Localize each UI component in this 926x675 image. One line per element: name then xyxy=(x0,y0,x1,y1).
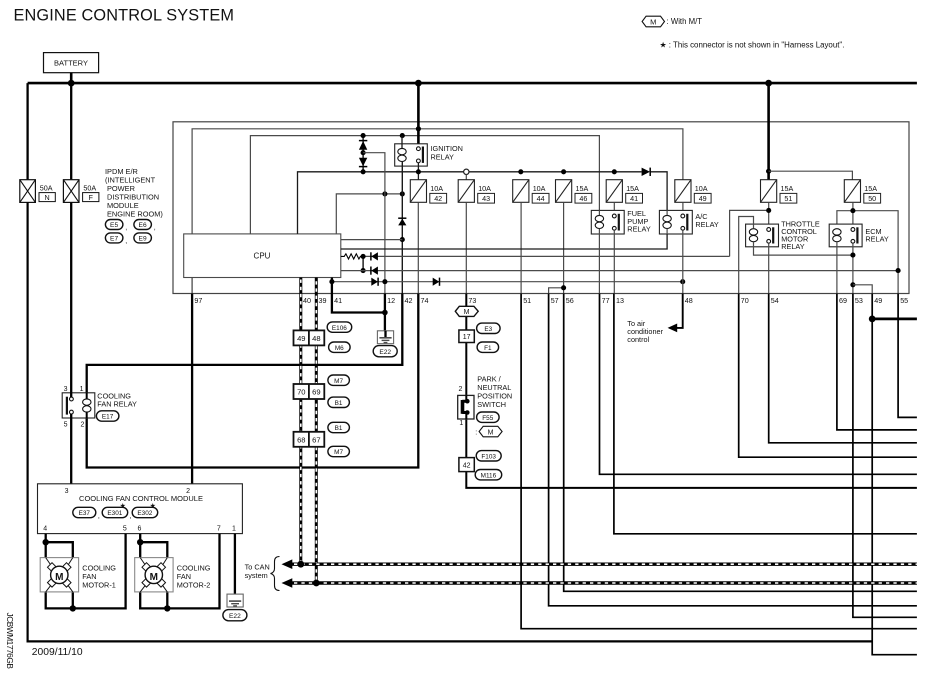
node pin12/pin41 join xyxy=(382,310,388,316)
cooling fan motor 2 xyxy=(135,558,211,592)
svg-text:M116: M116 xyxy=(481,472,497,479)
svg-text:: With M/T: : With M/T xyxy=(667,17,703,26)
svg-text:RELAY: RELAY xyxy=(781,242,805,251)
wire module pin4 to motor1 xyxy=(46,534,73,558)
wire battery drop to fuse 51 xyxy=(767,83,770,180)
node drop/rail1 xyxy=(416,126,421,131)
svg-text:FAN RELAY: FAN RELAY xyxy=(97,400,137,409)
wire pin49 below: thick branch and long drop xyxy=(872,294,917,655)
connector E3 oval xyxy=(477,323,501,333)
CAN line 40 (dashed) xyxy=(299,278,302,565)
svg-text:44: 44 xyxy=(537,194,545,203)
svg-text:N: N xyxy=(44,193,49,202)
svg-text:77: 77 xyxy=(602,296,610,305)
svg-text:M7: M7 xyxy=(334,449,343,456)
fuse 15A 51 xyxy=(761,180,797,203)
wire pin73 chain xyxy=(466,294,917,488)
tie between rowC and rowD xyxy=(362,256,364,270)
connector E301 oval (star) xyxy=(102,501,131,520)
node y194/ignition-coil xyxy=(400,191,405,196)
svg-text:F: F xyxy=(89,193,94,202)
node rail2/diode-stack xyxy=(361,133,366,138)
fuse 10A 44 xyxy=(513,180,549,203)
wire fuse43 feed xyxy=(465,175,467,180)
IPDM pin numbers xyxy=(194,296,908,305)
svg-text:M7: M7 xyxy=(334,378,343,385)
wire pin74 below to cooling fan relay pin2 xyxy=(87,294,419,468)
node rail3/fuse46 xyxy=(561,169,566,174)
diode rowD (pointing left) xyxy=(371,267,378,275)
connector block 49|48 (E106/M6) xyxy=(294,330,325,345)
CPU rowD wire to pin55 riser xyxy=(341,270,898,272)
svg-text:E106: E106 xyxy=(332,325,347,332)
CPU rowE wire pin41 to pin48 xyxy=(332,281,683,283)
svg-text:★ : This connector is not show: ★ : This connector is not shown in "Harn… xyxy=(660,41,845,50)
svg-text:system: system xyxy=(245,571,268,580)
svg-text:57: 57 xyxy=(551,296,559,305)
svg-text:M: M xyxy=(650,17,656,26)
svg-text:BATTERY: BATTERY xyxy=(54,59,88,68)
svg-text:56: 56 xyxy=(566,296,574,305)
svg-text:73: 73 xyxy=(468,296,476,305)
hexagon M on pin73 xyxy=(455,306,478,316)
wire rail3 (fuse feed rail) xyxy=(298,172,642,234)
svg-text:68: 68 xyxy=(297,435,305,444)
CAN line 39 (dashed) xyxy=(315,278,318,584)
wire ignition coil top stub xyxy=(401,136,403,148)
wire fuse44 out / pin51 column xyxy=(520,202,522,293)
connector F103 oval xyxy=(476,451,501,461)
svg-text:5: 5 xyxy=(64,421,68,428)
throttle control motor relay xyxy=(746,220,820,252)
wire pin13 below xyxy=(614,294,917,534)
wire rail2 (CPU to ignition coil / fuel pump coil) xyxy=(250,136,599,234)
node motor2 bottom xyxy=(164,605,170,611)
connector B1 oval (upper) xyxy=(328,397,350,407)
svg-text:RELAY: RELAY xyxy=(431,152,455,161)
fuse 15A 41 xyxy=(606,180,642,203)
svg-text:M: M xyxy=(464,309,470,316)
wire pin51 below xyxy=(521,294,917,629)
wire fuel pump contact out / pin13 xyxy=(613,230,615,293)
svg-text:E9: E9 xyxy=(139,236,147,243)
svg-text:69: 69 xyxy=(839,296,847,305)
node diode stack mid xyxy=(361,150,366,155)
node rowD/pin55 xyxy=(896,268,901,273)
CPU box U1 xyxy=(184,234,341,278)
node rowE/pin41 xyxy=(329,279,334,284)
svg-text:50: 50 xyxy=(868,194,876,203)
wire pin49 thick stub right xyxy=(872,317,917,320)
diode rowC (pointing left) xyxy=(371,252,378,260)
wire relay pin5 to module pin3 xyxy=(70,414,72,484)
wire branch to fuse 50 xyxy=(769,171,853,180)
node rail2/ignition-coil xyxy=(400,133,405,138)
connector E22 oval (module ground) xyxy=(223,610,247,621)
svg-text:,: , xyxy=(154,225,156,232)
svg-text:15A: 15A xyxy=(626,184,639,193)
wire fuse51 out to throttle contact, jog to rowC riser xyxy=(768,202,770,229)
svg-text:F1: F1 xyxy=(484,345,492,352)
wire fuse F feed xyxy=(70,83,72,180)
wire A/C contact out / pin48 xyxy=(682,230,684,293)
svg-text:ENGINE CONTROL SYSTEM: ENGINE CONTROL SYSTEM xyxy=(14,7,235,25)
svg-text:E302: E302 xyxy=(137,510,152,517)
node fuse51 out xyxy=(766,208,771,213)
ground symbol E22 (module) xyxy=(227,594,243,607)
svg-text:97: 97 xyxy=(194,296,202,305)
svg-text:55: 55 xyxy=(900,296,908,305)
node rowC resistor xyxy=(361,254,366,259)
ground symbol E22 (IPDM) xyxy=(377,331,393,344)
wire pin55 below xyxy=(898,294,917,418)
svg-text:E301: E301 xyxy=(107,510,122,517)
connector E22 oval (IPDM ground) xyxy=(373,346,397,357)
wire main battery bus xyxy=(28,82,917,85)
connector F1 oval xyxy=(477,342,499,352)
wire fuse42 out / pin74 column xyxy=(417,202,419,293)
hollow node rail3/fuse43 xyxy=(464,169,469,174)
CPU rowB wire to A/C coil xyxy=(341,234,667,249)
wire fuse50 out: to ECM coil, contact, and pin55 riser xyxy=(852,202,854,229)
connector E7 xyxy=(105,233,127,245)
wire pin57 below xyxy=(549,294,917,606)
wire ECM contact out to pin53, node rows xyxy=(852,243,854,293)
wire pin70 below xyxy=(739,294,917,458)
node rail3/fuse44 xyxy=(518,169,523,174)
node drop51/fuse50 branch xyxy=(766,169,771,174)
svg-text:,: , xyxy=(125,225,127,232)
wire module pin6 to motor2 xyxy=(140,534,167,558)
svg-text:M: M xyxy=(55,572,63,583)
wire pin42 below to cooling fan relay pin1 xyxy=(87,294,403,393)
wire ECM coil stub / pin69 xyxy=(836,242,838,293)
svg-text:E22: E22 xyxy=(379,349,391,356)
wire battery drop to ignition relay contact xyxy=(417,83,420,144)
node pin42/rowA xyxy=(400,237,405,242)
svg-text:SWITCH: SWITCH xyxy=(477,400,506,409)
svg-text:RELAY: RELAY xyxy=(695,220,719,229)
svg-text:67: 67 xyxy=(312,435,320,444)
svg-text:B1: B1 xyxy=(335,425,343,432)
wire ignition contact bottom to rail3 and fuse42 xyxy=(417,163,419,180)
svg-text:2009/11/10: 2009/11/10 xyxy=(32,647,83,658)
legend hexagon M (with M/T) xyxy=(642,16,702,27)
wire rail3 continuation to A/C coil xyxy=(651,172,668,211)
wire fuse N feed xyxy=(26,83,28,180)
node battery junction xyxy=(68,80,75,87)
svg-text:41: 41 xyxy=(630,194,638,203)
connector E302 oval (star) xyxy=(132,501,158,518)
diode pair stack between rail2 and rail3 xyxy=(359,136,367,172)
node y194/pin12 xyxy=(382,191,387,196)
svg-text:69: 69 xyxy=(312,388,320,397)
svg-text:1: 1 xyxy=(459,420,463,427)
svg-text:6: 6 xyxy=(138,526,142,533)
svg-text:7: 7 xyxy=(217,526,221,533)
wire pin41 below: jog to ground column xyxy=(332,278,385,313)
resistor on rowC xyxy=(341,254,364,259)
svg-text:M: M xyxy=(488,429,494,436)
node CAN low / line39 xyxy=(313,580,320,587)
node fuse46 split xyxy=(561,285,566,290)
svg-text:MOTOR-1: MOTOR-1 xyxy=(82,581,116,590)
svg-text:E6: E6 xyxy=(139,222,147,229)
wire A/C coil stubs xyxy=(666,210,668,234)
IPDM E/R box xyxy=(173,122,909,294)
svg-text:E17: E17 xyxy=(102,414,114,421)
connector E5 xyxy=(105,220,127,232)
svg-text:JCBWM1776GB: JCBWM1776GB xyxy=(5,613,15,670)
wire fuse49 out to A/C contact xyxy=(682,202,684,213)
diode rowE-2 (pointing right) xyxy=(433,278,440,286)
svg-text:41: 41 xyxy=(334,296,342,305)
A/C relay xyxy=(659,210,719,234)
svg-text:1: 1 xyxy=(80,386,84,393)
fuse 15A 50 xyxy=(844,180,880,203)
svg-text:49: 49 xyxy=(297,334,305,343)
fuel pump relay xyxy=(591,209,651,234)
wire CPU pin line y194 xyxy=(336,194,402,234)
cooling fan relay E17 xyxy=(62,386,137,429)
svg-text:RELAY: RELAY xyxy=(627,225,651,234)
wire motor2 bottom loop to module pin7 xyxy=(140,534,219,609)
connector block 68|67 (B1/M7) xyxy=(294,432,325,447)
svg-text:39: 39 xyxy=(319,296,327,305)
CPU rowC wire to fuse51 node xyxy=(363,255,729,257)
connector F55 oval xyxy=(477,412,500,422)
wire pin56 below xyxy=(564,294,917,592)
svg-text:3: 3 xyxy=(64,386,68,393)
svg-text:40: 40 xyxy=(303,296,311,305)
svg-text:★: ★ xyxy=(120,501,126,510)
svg-text:2: 2 xyxy=(458,386,462,393)
svg-text:RELAY: RELAY xyxy=(865,235,889,244)
connector E17 oval xyxy=(96,411,119,421)
svg-text:B1: B1 xyxy=(335,400,343,407)
arrow to air conditioner control xyxy=(668,324,678,333)
fuse 10A 42 xyxy=(410,180,446,203)
wire pin48 below to A/C arrow xyxy=(670,294,683,328)
cooling fan control module box xyxy=(38,484,243,534)
fuse 10A 43 xyxy=(458,180,494,203)
wire ignition coil bottom / diode / pin42 column xyxy=(401,162,403,294)
svg-text:15A: 15A xyxy=(576,184,589,193)
connector E106 oval xyxy=(327,322,352,332)
node rail3/diode-stack xyxy=(361,169,366,174)
node rowD tie xyxy=(361,268,366,273)
svg-text:2: 2 xyxy=(186,488,190,495)
svg-text:ENGINE ROOM): ENGINE ROOM) xyxy=(107,209,163,218)
svg-text:48: 48 xyxy=(685,296,693,305)
park/neutral position switch xyxy=(458,375,512,428)
svg-text:2: 2 xyxy=(80,421,84,428)
svg-text:E7: E7 xyxy=(110,236,118,243)
diode on rail3 feeding A/C relay coil xyxy=(642,168,651,176)
fuse 50A N xyxy=(20,180,56,203)
wire battery lead xyxy=(70,73,73,83)
wire pin77 below xyxy=(600,294,917,475)
wire branch to pin49 riser xyxy=(853,285,872,294)
svg-text:control: control xyxy=(627,335,649,344)
svg-text:,: , xyxy=(130,513,132,520)
connector block 70|69 (M7/B1) xyxy=(294,384,325,399)
connector E6 xyxy=(134,220,156,232)
svg-text:3: 3 xyxy=(65,488,69,495)
svg-text:74: 74 xyxy=(421,296,429,305)
node fuse50 out xyxy=(850,208,855,213)
svg-text:49: 49 xyxy=(699,194,707,203)
pin box 42 (switch) xyxy=(459,458,474,472)
svg-text:48: 48 xyxy=(312,334,320,343)
To CAN system label and brace xyxy=(245,557,280,591)
svg-text:★: ★ xyxy=(150,501,156,510)
svg-text:15A: 15A xyxy=(864,184,877,193)
wire pin69 below xyxy=(837,294,917,430)
svg-text:54: 54 xyxy=(771,296,779,305)
ignition relay xyxy=(395,144,463,166)
wire pin97 to cooling fan module pin2 xyxy=(191,278,193,294)
wire throttle coil top jog to pin70 xyxy=(739,217,754,294)
node ECM out / throttle coil xyxy=(850,253,855,258)
svg-text:42: 42 xyxy=(463,463,471,470)
svg-text:E22: E22 xyxy=(229,613,241,620)
svg-text:4: 4 xyxy=(43,526,47,533)
svg-text:46: 46 xyxy=(579,194,587,203)
connector B1 oval (lower) xyxy=(328,422,350,432)
svg-text:M: M xyxy=(150,572,158,583)
wire fuse F out to relay pin3 xyxy=(70,202,72,397)
svg-text:70: 70 xyxy=(741,296,749,305)
wire fuse43 out / pin73 column xyxy=(465,202,467,293)
wire throttle contact out / pin54 xyxy=(768,243,770,293)
cooling fan motor 1 xyxy=(40,558,116,592)
svg-text:5: 5 xyxy=(123,526,127,533)
node motor1 top xyxy=(43,539,49,545)
wire pin53 below xyxy=(853,294,917,618)
connector E37 oval xyxy=(73,507,100,520)
fuse 15A 46 xyxy=(556,180,592,203)
svg-text:10A: 10A xyxy=(430,184,443,193)
hexagon M (with M/T, switch) xyxy=(475,426,502,437)
svg-text:10A: 10A xyxy=(533,184,546,193)
wire fuse41 out to fuel pump contact xyxy=(613,202,615,216)
wire motor1 bottom loop to module pin5 xyxy=(46,534,126,609)
IPDM E/R label block xyxy=(105,167,163,219)
svg-text:53: 53 xyxy=(855,296,863,305)
connector M7 oval (lower) xyxy=(328,446,350,456)
svg-text:49: 49 xyxy=(874,296,882,305)
svg-text:F55: F55 xyxy=(482,415,493,422)
node motor2 top xyxy=(137,539,143,545)
CPU rowA wire xyxy=(341,239,403,241)
node pin49 thick stub xyxy=(869,316,876,323)
svg-text:15A: 15A xyxy=(781,184,794,193)
CAN rail low (dashed) xyxy=(282,578,917,588)
wire pin54 below xyxy=(769,294,917,443)
node rowE/pin48 xyxy=(680,279,685,284)
battery box xyxy=(44,53,99,73)
wire rail1 (battery feed rail to fuse49/CPU) xyxy=(192,129,683,234)
svg-text:42: 42 xyxy=(434,194,442,203)
svg-text:MOTOR-2: MOTOR-2 xyxy=(177,581,211,590)
wire pin12 below to ground xyxy=(384,294,386,332)
node bus junction at ECM drop xyxy=(765,80,772,87)
svg-text:51: 51 xyxy=(523,296,531,305)
svg-text:13: 13 xyxy=(616,296,624,305)
svg-text:COOLING FAN CONTROL MODULE: COOLING FAN CONTROL MODULE xyxy=(79,494,203,503)
svg-text:10A: 10A xyxy=(695,184,708,193)
svg-text:43: 43 xyxy=(482,194,490,203)
svg-text:50A: 50A xyxy=(40,184,53,193)
svg-text:M6: M6 xyxy=(335,345,344,352)
wire fuel pump coil stubs xyxy=(598,210,600,293)
svg-text:E3: E3 xyxy=(484,326,492,333)
svg-text:70: 70 xyxy=(297,388,305,397)
connector E9 xyxy=(134,233,152,243)
ECM relay xyxy=(829,224,889,247)
svg-text:42: 42 xyxy=(405,296,413,305)
fuse 10A 49 xyxy=(675,180,711,203)
node bus junction at ignition drop xyxy=(415,80,422,87)
svg-text:,: , xyxy=(98,513,100,520)
svg-text:,: , xyxy=(125,238,127,245)
wire module pin1 to ground xyxy=(234,534,236,601)
pin box 17 xyxy=(459,330,474,343)
diode on pin42 column xyxy=(398,218,406,225)
node ECM out branch to pin49 xyxy=(850,282,855,287)
svg-text:12: 12 xyxy=(387,296,395,305)
svg-text:17: 17 xyxy=(463,334,471,341)
node motor1 bottom xyxy=(70,605,76,611)
node CAN high / line40 xyxy=(297,561,304,568)
wire fuse46 out / split to pins 56 and 57 xyxy=(563,202,565,293)
connector M6 oval xyxy=(329,342,351,352)
svg-text:10A: 10A xyxy=(478,184,491,193)
svg-text:1: 1 xyxy=(232,526,236,533)
wire relay coil stubs xyxy=(86,393,88,418)
fuse 50A F xyxy=(63,180,98,203)
connector M7 oval (upper) xyxy=(328,375,350,385)
CAN rail high (dashed) xyxy=(282,559,917,569)
node rail3/fuse42 xyxy=(416,169,421,174)
node rail3/fuse41 xyxy=(612,169,617,174)
svg-text:F103: F103 xyxy=(481,454,496,461)
wire jog from diode mid node to pin12 column xyxy=(363,153,385,294)
wire throttle coil bottom to ECM output xyxy=(754,242,853,255)
connector M116 oval xyxy=(475,470,502,480)
svg-text:50A: 50A xyxy=(83,184,96,193)
svg-text:E37: E37 xyxy=(79,510,91,517)
svg-text:51: 51 xyxy=(784,194,792,203)
svg-text:CPU: CPU xyxy=(254,252,271,261)
node rowE/pin12 xyxy=(382,279,387,284)
svg-text:E5: E5 xyxy=(110,222,118,229)
wire fuse N long run to bottom right xyxy=(28,202,873,641)
svg-text::: : xyxy=(475,429,477,436)
diode rowE-1 (pointing right) xyxy=(371,278,378,286)
